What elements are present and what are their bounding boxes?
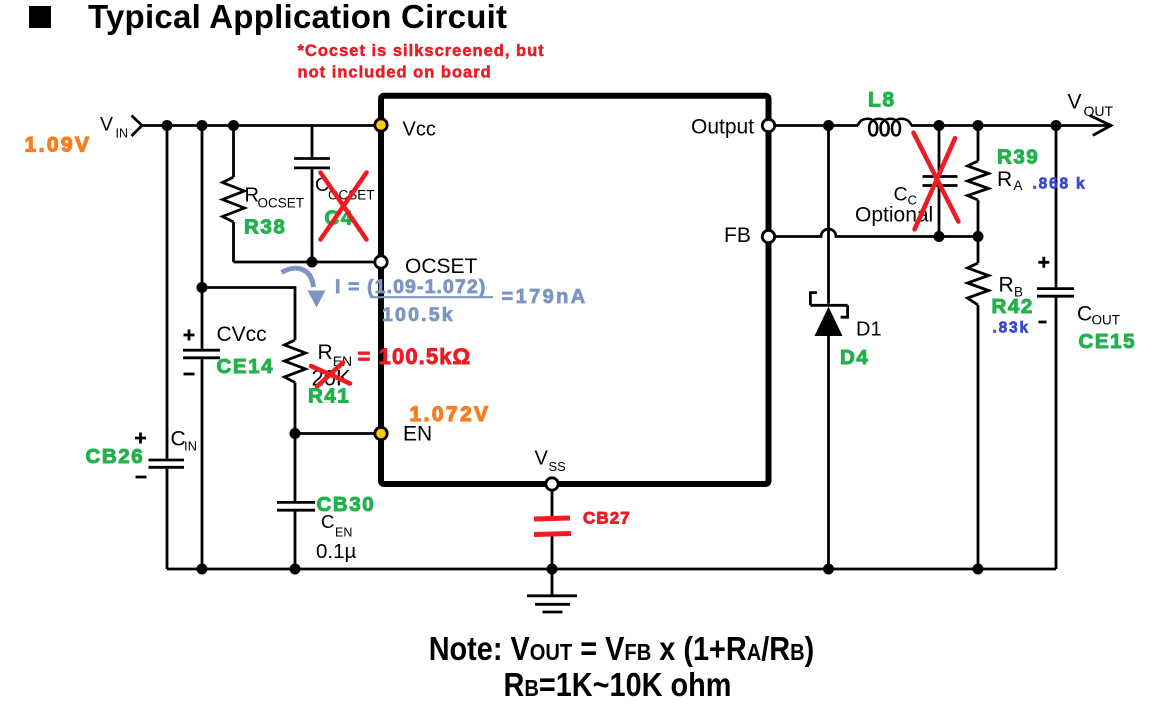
svg-text:Output: Output [691, 116, 754, 139]
svg-text:= 100.5kΩ: = 100.5kΩ [358, 344, 472, 369]
svg-text:100.5k: 100.5k [382, 304, 455, 326]
svg-text:V: V [1068, 91, 1082, 114]
svg-text:D4: D4 [840, 346, 869, 369]
svg-text:R42: R42 [992, 295, 1034, 318]
svg-text:V: V [100, 114, 113, 136]
svg-text:Typical Application Circuit: Typical Application Circuit [88, 0, 507, 35]
svg-text:IN: IN [116, 127, 129, 141]
svg-text:R: R [999, 274, 1014, 297]
svg-text:D1: D1 [856, 319, 882, 341]
svg-text:IN: IN [184, 439, 197, 454]
svg-text:1.09V: 1.09V [25, 134, 92, 157]
svg-text:CB27: CB27 [583, 509, 631, 528]
svg-text:R39: R39 [997, 146, 1039, 169]
svg-text:1.072V: 1.072V [410, 403, 491, 426]
svg-text:CE14: CE14 [217, 355, 275, 378]
svg-text:R41: R41 [308, 385, 350, 408]
svg-text:V: V [535, 448, 549, 470]
svg-text:I = (1.09-1.072): I = (1.09-1.072) [335, 276, 486, 298]
svg-text:OUT: OUT [1092, 313, 1121, 328]
svg-text:CE15: CE15 [1079, 330, 1137, 353]
svg-text:C: C [1077, 303, 1092, 326]
svg-text:A: A [1014, 178, 1023, 193]
svg-text:C: C [894, 184, 908, 206]
svg-text:0.1µ: 0.1µ [316, 540, 356, 563]
svg-text:.868 k: .868 k [1033, 176, 1087, 193]
svg-text:CB26: CB26 [86, 445, 145, 468]
svg-text:CVcc: CVcc [217, 323, 267, 346]
svg-text:OUT: OUT [1084, 103, 1114, 119]
svg-text:OCSET: OCSET [405, 255, 478, 278]
svg-text:R: R [997, 168, 1012, 191]
svg-text:R: R [318, 341, 333, 364]
svg-text:R38: R38 [244, 216, 286, 239]
svg-text:C: C [321, 511, 334, 532]
svg-text:*Cocset is silkscreened, but: *Cocset is silkscreened, but [298, 42, 545, 60]
svg-text:=179nA: =179nA [502, 286, 588, 308]
svg-text:.83k: .83k [993, 320, 1030, 337]
svg-text:not included on board: not included on board [298, 64, 492, 82]
svg-text:SS: SS [549, 459, 567, 474]
svg-text:OCSET: OCSET [258, 196, 305, 211]
svg-text:L8: L8 [868, 89, 896, 112]
svg-text:EN: EN [335, 526, 352, 540]
svg-text:Vcc: Vcc [403, 119, 436, 141]
svg-text:FB: FB [724, 224, 751, 247]
